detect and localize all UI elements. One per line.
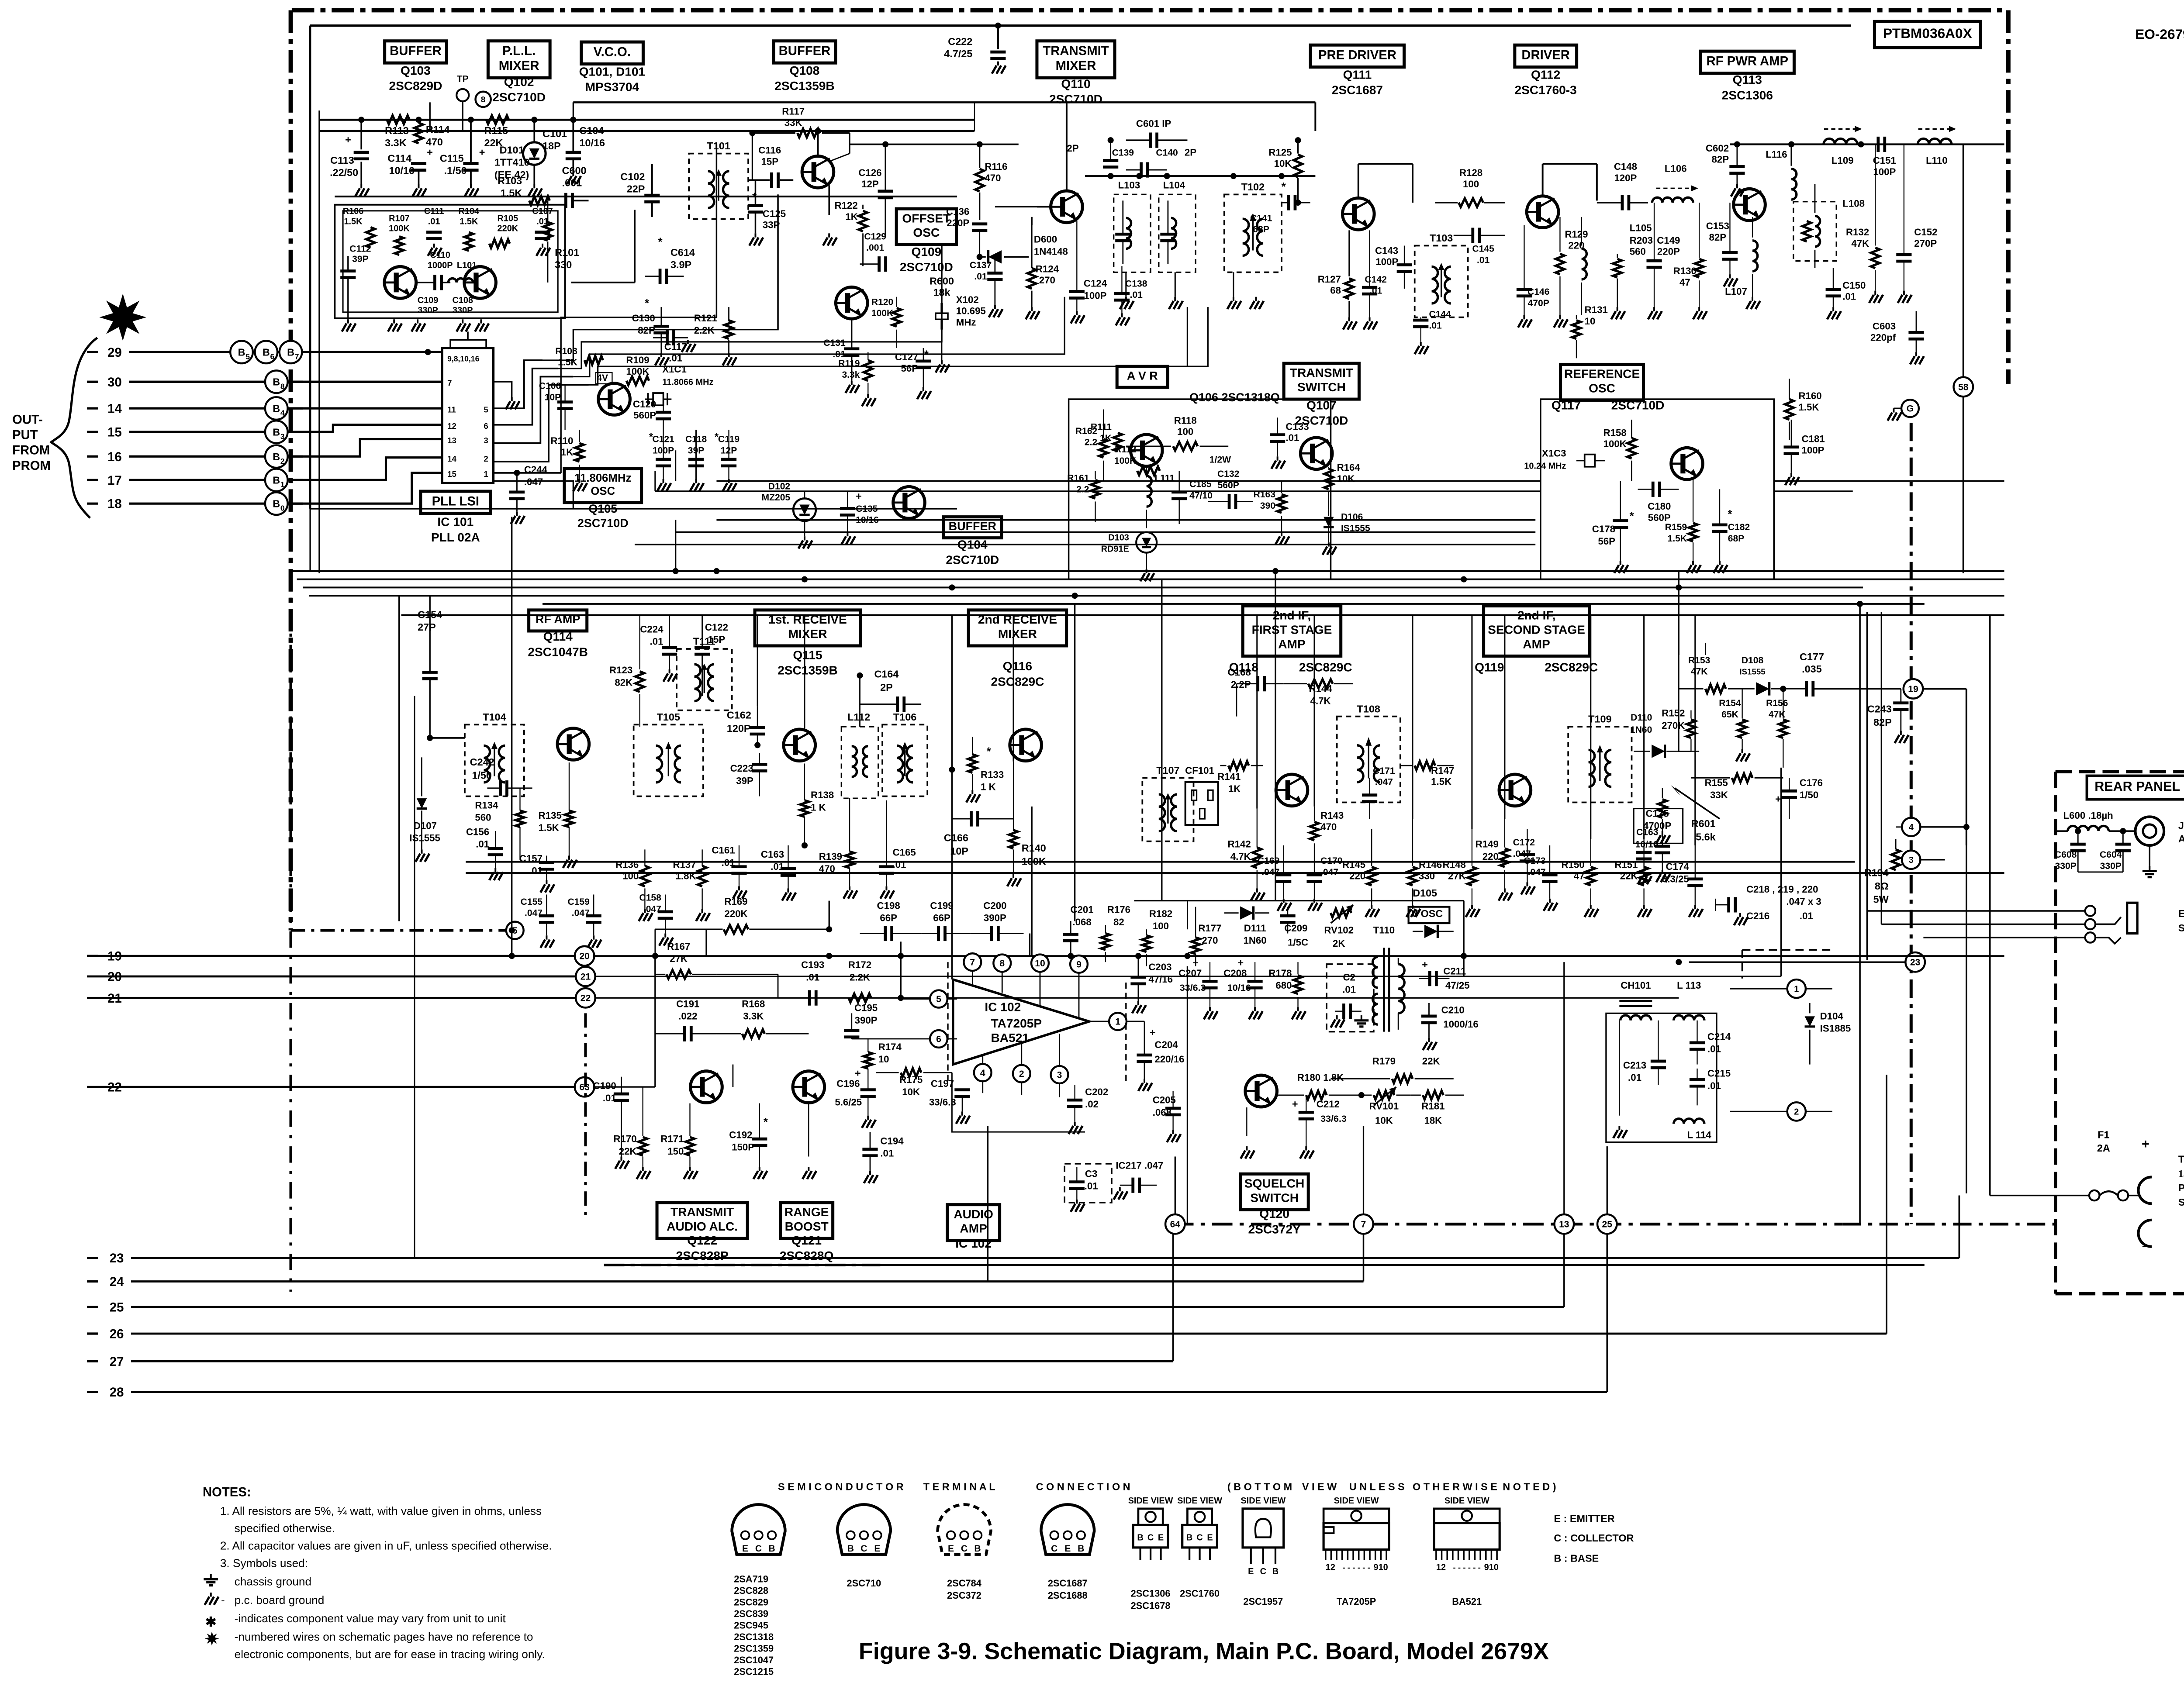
diode D106 <box>1324 517 1334 527</box>
transistor Q103 <box>384 267 416 299</box>
svg-text:.01: .01 <box>1800 910 1813 921</box>
label box RF AMP Q114 <box>529 610 587 631</box>
wire bottom dash left <box>604 1265 881 1266</box>
wire rear bottom link <box>1842 1224 2055 1225</box>
svg-text:6: 6 <box>484 421 488 431</box>
svg-text:R170: R170 <box>613 1134 636 1145</box>
svg-text:+: + <box>479 146 485 158</box>
svg-text:15: 15 <box>447 469 456 479</box>
svg-text:30: 30 <box>107 375 122 390</box>
label box AUDIO AMP IC102 <box>947 1205 1000 1241</box>
label box 1st RECEIVE MIXER Q115 <box>755 610 860 646</box>
wire row20 <box>87 976 575 977</box>
wire tx section dash left <box>585 1013 586 1218</box>
svg-text:680: 680 <box>1275 980 1292 991</box>
svg-text:DRIVER: DRIVER <box>1521 48 1570 62</box>
wire v20 <box>900 941 901 998</box>
svg-text:120P: 120P <box>727 723 751 734</box>
svg-text:C601 IP: C601 IP <box>1136 118 1171 129</box>
svg-text:C: C <box>755 1544 762 1554</box>
svg-text:7: 7 <box>447 379 452 388</box>
svg-text:2SC372Y: 2SC372Y <box>1248 1222 1301 1236</box>
diode D107 <box>417 798 427 808</box>
ic pin1 <box>1109 1013 1127 1030</box>
wire mid bus 2 <box>297 579 2004 580</box>
svg-text:R135: R135 <box>539 810 562 821</box>
svg-text:1N60: 1N60 <box>1630 725 1652 735</box>
svg-text:TA7205P: TA7205P <box>991 1017 1042 1030</box>
svg-text:IC217 .047: IC217 .047 <box>1116 1160 1163 1171</box>
wire mid link b <box>676 532 1536 533</box>
wire rx vert l <box>1695 615 1696 845</box>
svg-text:R176: R176 <box>1107 904 1130 915</box>
wire mid bus 4 <box>309 595 2004 596</box>
svg-text:2SC784: 2SC784 <box>947 1578 981 1589</box>
wire avr block box <box>1069 399 1331 579</box>
wire ic right 5 <box>494 360 543 408</box>
svg-text:.01: .01 <box>669 352 682 363</box>
label box RF PWR AMP Q113 <box>1700 51 1794 73</box>
svg-text:220P: 220P <box>1657 246 1680 257</box>
svg-text:4.7/25: 4.7/25 <box>944 48 972 59</box>
svg-text:R103: R103 <box>498 175 522 186</box>
svg-text:C181: C181 <box>1802 434 1825 445</box>
svg-text:C159: C159 <box>567 897 589 907</box>
jack EXT SPEAKER <box>2085 906 2095 916</box>
ic pin8 <box>993 955 1011 972</box>
wire right dash-dot border <box>2008 10 2009 383</box>
svg-text:2SC372: 2SC372 <box>947 1590 981 1601</box>
wire q121 base <box>759 1071 760 1087</box>
svg-text:8: 8 <box>280 382 285 391</box>
svg-text:1K: 1K <box>1100 433 1112 443</box>
svg-text:1.5K: 1.5K <box>1431 776 1451 787</box>
svg-text:Q109: Q109 <box>911 245 941 259</box>
svg-text:T104: T104 <box>483 711 506 723</box>
wire rx vert d <box>1013 615 1014 762</box>
svg-text:Q121: Q121 <box>791 1234 822 1247</box>
svg-text:.047 x 3: .047 x 3 <box>1786 896 1821 907</box>
capacitor CH101 block <box>1606 1013 1717 1142</box>
capacitor C114 <box>411 163 426 164</box>
svg-text:CH101: CH101 <box>1621 980 1651 991</box>
svg-text:100: 100 <box>1177 426 1193 437</box>
transistor Q108 <box>802 156 834 188</box>
transistor Q120 <box>1245 1075 1277 1107</box>
wire vco link <box>571 282 635 283</box>
wire v8 <box>1075 604 1075 921</box>
svg-text:9: 9 <box>1076 959 1082 969</box>
svg-text:220pf: 220pf <box>1870 332 1896 343</box>
svg-text:C198: C198 <box>877 900 900 911</box>
wire rx vert j <box>1590 615 1591 839</box>
svg-text:1/2W: 1/2W <box>1209 455 1231 465</box>
filter CF101 <box>1185 782 1218 825</box>
wire q104 bus2 <box>655 491 1541 492</box>
wire ic right 3 <box>494 377 574 443</box>
svg-text:C165: C165 <box>893 847 916 858</box>
svg-text:Q120: Q120 <box>1259 1207 1289 1221</box>
svg-text:-numbered wires on schematic p: -numbered wires on schematic pages have … <box>235 1630 533 1643</box>
svg-text:L104: L104 <box>1163 179 1185 190</box>
inductor L108 <box>1794 202 1836 261</box>
inductor L104 box <box>1159 194 1196 272</box>
node <box>826 953 832 959</box>
svg-text:C143: C143 <box>1375 245 1398 256</box>
wire v17 <box>987 1126 988 1281</box>
svg-text:330P: 330P <box>453 306 473 315</box>
svg-text:4: 4 <box>280 409 285 417</box>
svg-text:15: 15 <box>107 425 122 440</box>
node G <box>1901 400 1919 417</box>
svg-text:R105: R105 <box>498 214 518 223</box>
svg-text:R152: R152 <box>1662 708 1685 719</box>
svg-text:.035: .035 <box>1802 663 1822 675</box>
svg-text:3.9P: 3.9P <box>670 259 691 270</box>
package 2SC710 <box>837 1504 891 1554</box>
svg-text:82P: 82P <box>1712 154 1729 165</box>
svg-text:150: 150 <box>667 1146 684 1157</box>
label box RANGE BOOST Q121 <box>781 1203 833 1238</box>
svg-text:22K: 22K <box>1620 870 1638 881</box>
node 23 <box>1905 952 1925 972</box>
svg-text:2P: 2P <box>1067 143 1078 154</box>
svg-text:PROM: PROM <box>12 459 51 473</box>
svg-text:C600: C600 <box>562 165 587 176</box>
svg-text:330: 330 <box>555 259 572 270</box>
svg-text:C205: C205 <box>1153 1095 1176 1106</box>
svg-text:390P: 390P <box>855 1015 878 1026</box>
svg-text:220: 220 <box>1482 851 1499 862</box>
transistor Q118 <box>1276 774 1308 806</box>
svg-text:T107: T107 <box>1156 765 1179 776</box>
svg-text:390: 390 <box>1260 501 1275 511</box>
svg-text:7: 7 <box>970 958 975 968</box>
svg-text:R111: R111 <box>1091 422 1112 432</box>
svg-text:R120: R120 <box>871 297 893 307</box>
svg-text:D102: D102 <box>768 481 790 491</box>
svg-text:C161: C161 <box>712 845 735 856</box>
svg-text:.01: .01 <box>1707 1043 1721 1054</box>
svg-text:REAR PANEL: REAR PANEL <box>2094 779 2180 794</box>
svg-text:9,8,10,16: 9,8,10,16 <box>447 354 479 363</box>
svg-text:C: C <box>961 1544 968 1554</box>
svg-text:BA521: BA521 <box>1452 1596 1482 1607</box>
svg-text:*: * <box>752 191 757 203</box>
transformer T105 <box>634 724 703 796</box>
wire v15 <box>655 956 656 1087</box>
svg-text:C136: C136 <box>946 206 969 217</box>
label box VCO Q101 <box>581 42 643 64</box>
wire v11 <box>1187 307 1188 366</box>
svg-text:electronic components, but are: electronic components, but are for ease … <box>235 1648 545 1661</box>
svg-text:CF101: CF101 <box>1185 765 1214 776</box>
node <box>1184 953 1190 959</box>
wire ic right 2 <box>494 385 589 462</box>
wire osc box2 <box>343 211 558 312</box>
svg-text:3: 3 <box>1909 855 1914 865</box>
svg-text:PRE DRIVER: PRE DRIVER <box>1318 48 1396 62</box>
svg-text:C108: C108 <box>452 296 473 305</box>
svg-text:2SC839: 2SC839 <box>734 1608 768 1619</box>
svg-text:.01: .01 <box>1707 1080 1721 1091</box>
transistor Q105 <box>598 383 630 415</box>
node <box>1072 593 1078 599</box>
svg-text:64: 64 <box>1170 1220 1181 1230</box>
wire right col a <box>1859 604 1860 1224</box>
svg-text:2SC828Q: 2SC828Q <box>780 1249 833 1262</box>
transformer T108 <box>1337 717 1400 803</box>
svg-text:J1: J1 <box>2178 820 2184 831</box>
svg-text:11: 11 <box>447 405 456 414</box>
svg-text:C120: C120 <box>633 399 656 410</box>
svg-text:1.5K: 1.5K <box>344 217 363 226</box>
wire row19 <box>87 955 574 956</box>
wire ref osc block <box>1541 399 1774 579</box>
svg-text:C111: C111 <box>424 207 444 216</box>
svg-text:47K: 47K <box>1691 667 1708 677</box>
svg-text:33/6.3: 33/6.3 <box>1180 982 1206 993</box>
wire stair2 <box>543 194 778 360</box>
svg-text:3.3K: 3.3K <box>385 137 407 148</box>
node <box>1272 568 1279 574</box>
label box AVR Q106 <box>1117 366 1168 387</box>
svg-text:C177: C177 <box>1800 651 1824 662</box>
wire second left rail <box>319 110 320 573</box>
transistor Q115 <box>784 729 816 761</box>
wire mid link c <box>635 544 1535 545</box>
svg-text:2SC828: 2SC828 <box>734 1585 768 1596</box>
svg-text:E: E <box>874 1544 880 1554</box>
svg-text:C2: C2 <box>1343 972 1355 983</box>
svg-text:C162: C162 <box>727 709 751 721</box>
wire rx vert c <box>951 615 952 770</box>
ground L103 <box>1126 297 1127 301</box>
svg-text:100: 100 <box>1463 179 1479 190</box>
svg-text:C176: C176 <box>1800 777 1823 788</box>
svg-text:B: B <box>287 347 294 358</box>
ground T102b <box>1255 297 1256 301</box>
svg-text:C122: C122 <box>705 622 728 633</box>
svg-text:C218 , 219 , 220: C218 , 219 , 220 <box>1746 884 1818 895</box>
wire 19 to right <box>1923 688 1966 689</box>
svg-text:C114: C114 <box>387 152 411 164</box>
svg-text:C: C <box>860 1544 867 1554</box>
svg-text:C164: C164 <box>874 669 898 680</box>
svg-text:47/16: 47/16 <box>1148 974 1173 985</box>
transistor Q107 <box>1300 438 1332 469</box>
wire rx vert k <box>1644 615 1645 839</box>
svg-text:−: − <box>2142 1240 2149 1253</box>
svg-text:4: 4 <box>980 1068 985 1078</box>
svg-text:D110: D110 <box>1631 713 1652 723</box>
wire v2 <box>716 144 717 317</box>
svg-text:R138: R138 <box>811 790 834 800</box>
svg-text:2nd IF,: 2nd IF, <box>1517 609 1555 622</box>
svg-text:SIDE VIEW: SIDE VIEW <box>1241 1496 1286 1506</box>
svg-text:470: 470 <box>426 136 443 148</box>
node <box>749 130 755 136</box>
svg-text:C204: C204 <box>1154 1039 1178 1050</box>
svg-text:A V R: A V R <box>1127 369 1158 382</box>
svg-text:270: 270 <box>1039 275 1055 286</box>
svg-text:1000P: 1000P <box>428 261 453 270</box>
svg-text:4.7K: 4.7K <box>1230 851 1251 862</box>
svg-text:C144: C144 <box>1429 310 1451 320</box>
svg-text:C133: C133 <box>1286 421 1309 432</box>
svg-text:C124: C124 <box>1084 278 1107 289</box>
svg-text:L109: L109 <box>1832 155 1854 166</box>
svg-text:Q108: Q108 <box>790 64 820 77</box>
wire PROM row 16 <box>87 456 98 457</box>
svg-text:33/6.3: 33/6.3 <box>1320 1113 1347 1124</box>
svg-text:F1: F1 <box>2098 1129 2109 1140</box>
wire ic top <box>450 340 486 348</box>
wire top rail A <box>319 131 975 131</box>
svg-text:2SC945: 2SC945 <box>734 1620 768 1631</box>
svg-text:100K: 100K <box>1114 456 1137 466</box>
svg-text:MIXER: MIXER <box>1056 59 1096 73</box>
svg-text:2SC710D: 2SC710D <box>492 90 546 104</box>
svg-text:R181: R181 <box>1421 1101 1444 1112</box>
ic pin5 <box>930 990 947 1008</box>
svg-text:C182: C182 <box>1728 522 1750 532</box>
node 22 <box>576 988 595 1008</box>
svg-text:100P: 100P <box>1873 166 1896 177</box>
svg-text:C141: C141 <box>1250 213 1272 223</box>
svg-text:R177: R177 <box>1198 923 1221 934</box>
svg-text:11.806MHz: 11.806MHz <box>574 472 631 484</box>
svg-text:.01: .01 <box>806 972 819 983</box>
svg-text:B: B <box>238 347 245 358</box>
svg-text:POWER: POWER <box>2178 1182 2184 1193</box>
svg-text:R203: R203 <box>1630 235 1653 246</box>
wire audio top rail <box>655 929 656 974</box>
svg-text:220P: 220P <box>947 217 969 228</box>
node <box>1857 601 1863 607</box>
svg-text:+: + <box>427 146 433 158</box>
svg-text:.01: .01 <box>428 217 440 226</box>
resistor R113 <box>387 115 410 124</box>
svg-text:R149: R149 <box>1476 839 1499 850</box>
svg-text:C130: C130 <box>632 313 655 324</box>
wire v14 <box>1187 966 1188 1224</box>
wire minus line <box>1959 1233 2139 1234</box>
wire q104 bus <box>716 481 1540 482</box>
svg-text:E: E <box>1248 1567 1254 1576</box>
svg-text:270P: 270P <box>1914 238 1937 249</box>
svg-text:2SC1687: 2SC1687 <box>1332 83 1383 97</box>
label box PTBM036A0X <box>1874 21 1980 48</box>
transformer T107 <box>1142 778 1193 841</box>
svg-text:T110: T110 <box>1373 925 1395 936</box>
svg-text:Q111: Q111 <box>1343 68 1372 81</box>
transformer T106 <box>882 724 927 796</box>
svg-text:4700P: 4700P <box>1643 820 1671 831</box>
svg-text:+: + <box>1192 957 1199 969</box>
node <box>1461 576 1467 583</box>
svg-text:220: 220 <box>1349 870 1365 881</box>
svg-text:B : BASE: B : BASE <box>1554 1553 1599 1564</box>
package 2SC784 <box>938 1504 991 1554</box>
svg-text:10/16: 10/16 <box>1635 840 1659 850</box>
label box 2nd IF SECOND STAGE Q119 <box>1484 606 1590 656</box>
svg-text:SIDE VIEW: SIDE VIEW <box>1177 1496 1222 1506</box>
svg-text:L101: L101 <box>457 261 477 270</box>
svg-text:82P: 82P <box>1709 232 1727 243</box>
transformer T111 <box>677 649 732 710</box>
svg-text:470: 470 <box>985 172 1001 183</box>
svg-text:R123: R123 <box>609 665 632 676</box>
svg-text:390P: 390P <box>984 912 1006 923</box>
svg-text:Q102: Q102 <box>504 75 534 89</box>
svg-text:2: 2 <box>1794 1107 1799 1117</box>
wire rail A1 <box>319 119 975 120</box>
svg-text:C113: C113 <box>330 155 354 166</box>
svg-text:C207: C207 <box>1178 968 1202 979</box>
svg-text:R148: R148 <box>1443 859 1466 870</box>
svg-text:R174: R174 <box>878 1041 902 1052</box>
wire row 27 <box>87 1361 98 1362</box>
wire v13 <box>1678 571 1679 655</box>
svg-text:C210: C210 <box>1441 1004 1465 1015</box>
svg-text:PLL 02A: PLL 02A <box>431 531 480 544</box>
wire sq rail <box>716 974 778 975</box>
svg-text:+: + <box>855 1068 861 1079</box>
svg-text:C158: C158 <box>639 893 661 903</box>
svg-text:470: 470 <box>1320 821 1337 832</box>
svg-text:1.5K: 1.5K <box>1668 534 1687 544</box>
svg-text:C142: C142 <box>1365 275 1386 285</box>
svg-text:10: 10 <box>878 1054 889 1065</box>
label box 2nd RECEIVE MIXER Q116 <box>968 610 1067 646</box>
label box PLL LSI IC101 <box>421 491 491 513</box>
svg-text:19: 19 <box>1908 684 1918 694</box>
svg-text:R141: R141 <box>1217 771 1241 782</box>
svg-text:C213: C213 <box>1623 1060 1646 1071</box>
svg-text:8Ω: 8Ω <box>1875 880 1889 892</box>
svg-text:C175: C175 <box>1645 808 1669 819</box>
wire row 26 <box>87 1333 98 1334</box>
wire v24 <box>429 102 430 131</box>
svg-text:T101: T101 <box>707 140 730 152</box>
node 13 <box>1555 1214 1574 1234</box>
svg-text:U N L E S S: U N L E S S <box>1349 1481 1405 1493</box>
svg-text:10.24 MHz: 10.24 MHz <box>1524 461 1566 471</box>
ic pin2 <box>1013 1065 1030 1083</box>
svg-text:OSC: OSC <box>591 485 615 497</box>
node <box>977 141 983 147</box>
label box REFERENCE OSC Q117 <box>1561 364 1644 400</box>
svg-text:AUDIO ALC.: AUDIO ALC. <box>667 1220 738 1233</box>
svg-text:.01: .01 <box>650 636 663 647</box>
svg-text:R143: R143 <box>1320 810 1344 821</box>
wire ic right 6 <box>494 369 558 425</box>
svg-text:47K: 47K <box>1851 238 1869 249</box>
svg-text:.01: .01 <box>771 861 784 872</box>
svg-text:56P: 56P <box>1598 536 1615 547</box>
svg-text:L106: L106 <box>1665 163 1687 174</box>
svg-text:C109: C109 <box>418 296 439 305</box>
svg-text:MPS3704: MPS3704 <box>585 80 639 94</box>
svg-text:66P: 66P <box>933 912 950 923</box>
svg-text:100K: 100K <box>871 308 894 318</box>
capacitor C113 <box>361 120 362 149</box>
svg-text:C174: C174 <box>1666 861 1690 872</box>
ground Q103 <box>394 319 394 323</box>
svg-text:EXT.: EXT. <box>2178 908 2184 919</box>
svg-text:L108: L108 <box>1842 198 1865 209</box>
